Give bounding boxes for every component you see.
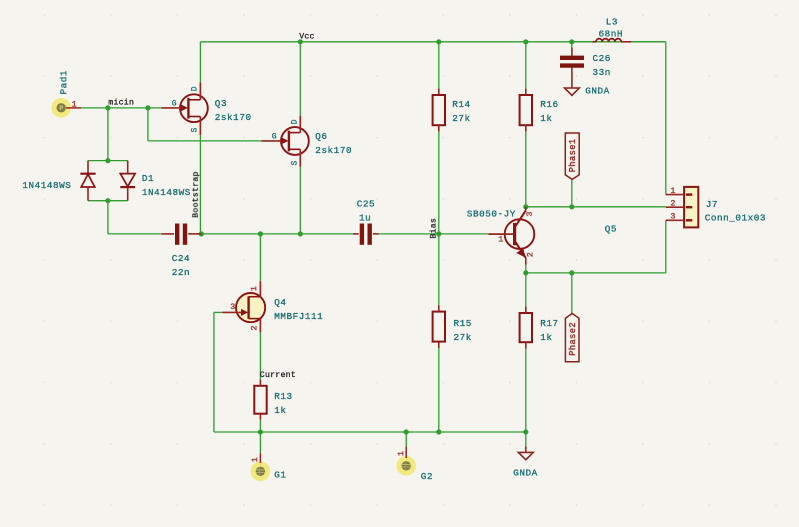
svg-text:2sk170: 2sk170 (215, 112, 252, 123)
svg-text:Q6: Q6 (315, 131, 327, 142)
svg-text:Phase2: Phase2 (568, 322, 578, 356)
svg-text:1k: 1k (274, 405, 286, 416)
svg-text:1: 1 (72, 100, 77, 110)
svg-text:68nH: 68nH (599, 28, 624, 39)
svg-text:C25: C25 (357, 199, 375, 210)
svg-text:L3: L3 (606, 16, 618, 27)
svg-text:27k: 27k (454, 332, 472, 343)
svg-text:Vcc: Vcc (299, 33, 315, 42)
svg-text:GNDA: GNDA (585, 85, 610, 96)
svg-text:1: 1 (670, 186, 675, 196)
svg-text:2: 2 (249, 326, 259, 331)
svg-text:22n: 22n (172, 267, 190, 278)
svg-text:D1: D1 (142, 173, 154, 184)
svg-text:1N4148WS: 1N4148WS (142, 187, 191, 198)
svg-text:Phase1: Phase1 (568, 139, 578, 173)
svg-text:Bootstrap: Bootstrap (192, 171, 201, 217)
svg-text:D: D (191, 86, 200, 91)
svg-text:2sk170: 2sk170 (315, 145, 352, 156)
svg-text:R17: R17 (540, 318, 558, 329)
svg-text:3: 3 (525, 212, 535, 217)
svg-text:2: 2 (670, 198, 675, 208)
svg-text:1N4148WS: 1N4148WS (22, 180, 71, 191)
svg-text:1: 1 (396, 451, 406, 456)
svg-text:P: P (59, 105, 63, 112)
svg-text:S: S (291, 161, 300, 166)
svg-text:Pad1: Pad1 (58, 70, 69, 95)
svg-text:3: 3 (670, 211, 675, 221)
svg-text:G: G (272, 133, 277, 142)
svg-text:J7: J7 (706, 199, 718, 210)
svg-text:C26: C26 (593, 53, 611, 64)
svg-text:Bias: Bias (429, 218, 439, 239)
svg-text:2: 2 (525, 252, 535, 257)
svg-text:D: D (291, 119, 300, 124)
svg-text:1: 1 (250, 457, 260, 462)
svg-text:R13: R13 (274, 391, 292, 402)
svg-text:27k: 27k (452, 113, 470, 124)
svg-text:Q5: Q5 (605, 224, 617, 235)
svg-text:Conn_01x03: Conn_01x03 (705, 213, 766, 224)
svg-text:G: G (172, 100, 177, 109)
svg-text:R15: R15 (454, 318, 472, 329)
svg-text:S: S (191, 128, 200, 133)
svg-text:MMBFJ111: MMBFJ111 (274, 311, 323, 322)
svg-text:3: 3 (230, 302, 235, 312)
svg-text:R16: R16 (540, 99, 558, 110)
svg-text:Q3: Q3 (215, 98, 227, 109)
svg-text:C24: C24 (172, 253, 190, 264)
svg-text:1k: 1k (540, 332, 552, 343)
svg-text:G2: G2 (421, 471, 433, 482)
svg-text:1u: 1u (359, 213, 371, 224)
svg-text:G1: G1 (274, 469, 286, 480)
svg-text:SB050-JY: SB050-JY (467, 208, 516, 219)
svg-text:1: 1 (249, 286, 259, 291)
svg-text:GNDA: GNDA (513, 468, 538, 479)
svg-text:1k: 1k (540, 113, 552, 124)
svg-text:Q4: Q4 (274, 297, 286, 308)
svg-text:1: 1 (498, 235, 503, 245)
svg-text:micin: micin (108, 98, 134, 108)
svg-text:R14: R14 (452, 99, 470, 110)
svg-text:33n: 33n (593, 67, 611, 78)
svg-text:Current: Current (260, 371, 296, 380)
